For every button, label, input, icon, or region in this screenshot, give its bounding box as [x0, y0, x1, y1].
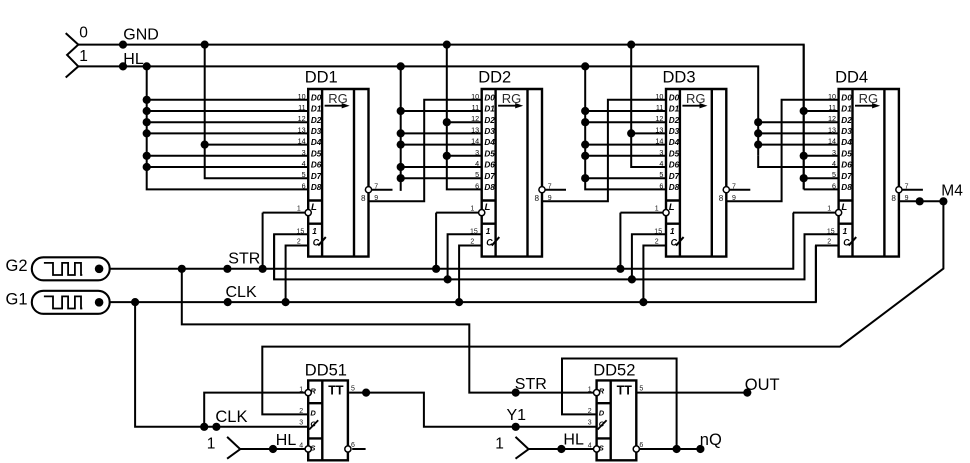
svg-text:3: 3	[832, 148, 836, 157]
svg-text:5: 5	[351, 386, 355, 393]
svg-text:1: 1	[588, 386, 592, 393]
svg-text:C: C	[310, 419, 316, 428]
svg-text:HL: HL	[276, 432, 297, 449]
svg-text:D3: D3	[841, 127, 852, 136]
svg-text:STR: STR	[228, 251, 260, 268]
svg-text:D4: D4	[484, 138, 495, 147]
svg-text:CLK: CLK	[215, 408, 247, 426]
svg-text:D5: D5	[669, 149, 680, 158]
svg-text:D1: D1	[484, 105, 495, 114]
svg-text:D7: D7	[484, 172, 495, 181]
svg-text:D8: D8	[311, 183, 322, 192]
svg-text:D4: D4	[841, 138, 852, 147]
svg-text:4: 4	[659, 159, 663, 168]
svg-text:4: 4	[475, 159, 479, 168]
svg-text:L: L	[669, 202, 675, 213]
svg-text:Y1: Y1	[507, 407, 527, 424]
svg-text:D4: D4	[311, 138, 322, 147]
svg-text:2: 2	[470, 239, 474, 246]
svg-text:1: 1	[495, 435, 504, 452]
svg-text:9: 9	[548, 195, 552, 202]
svg-text:D2: D2	[669, 116, 680, 125]
svg-text:D: D	[599, 409, 605, 418]
svg-text:8: 8	[361, 194, 366, 203]
svg-text:9: 9	[732, 195, 736, 202]
svg-text:2: 2	[588, 408, 592, 415]
svg-text:RG: RG	[686, 91, 706, 106]
svg-text:D5: D5	[841, 149, 852, 158]
svg-text:5: 5	[639, 386, 643, 393]
svg-text:13: 13	[828, 125, 836, 134]
svg-text:5: 5	[659, 170, 663, 179]
svg-text:4: 4	[832, 159, 836, 168]
svg-text:DD3: DD3	[663, 69, 696, 87]
svg-text:1: 1	[207, 435, 216, 452]
svg-text:3: 3	[302, 148, 306, 157]
svg-text:DD2: DD2	[478, 69, 511, 87]
svg-text:D3: D3	[484, 127, 495, 136]
svg-text:4: 4	[302, 159, 306, 168]
svg-text:1: 1	[843, 227, 848, 236]
svg-text:2: 2	[297, 239, 301, 246]
svg-text:7: 7	[732, 183, 736, 190]
svg-text:10: 10	[298, 92, 306, 101]
svg-text:C: C	[486, 237, 493, 247]
svg-text:2: 2	[299, 408, 303, 415]
svg-text:3: 3	[475, 148, 479, 157]
svg-text:C: C	[671, 237, 678, 247]
svg-text:G2: G2	[6, 257, 28, 275]
svg-text:3: 3	[659, 148, 663, 157]
svg-text:5: 5	[302, 170, 306, 179]
svg-text:D6: D6	[841, 161, 852, 170]
svg-text:3: 3	[299, 419, 303, 426]
svg-text:10: 10	[655, 92, 663, 101]
svg-text:OUT: OUT	[745, 376, 780, 394]
svg-text:13: 13	[655, 125, 663, 134]
svg-text:S: S	[310, 444, 315, 453]
svg-text:R: R	[310, 387, 316, 396]
svg-text:6: 6	[302, 181, 306, 190]
svg-text:S: S	[599, 444, 604, 453]
svg-text:6: 6	[351, 442, 355, 449]
svg-text:4: 4	[299, 442, 303, 449]
svg-text:13: 13	[298, 125, 306, 134]
svg-text:DD52: DD52	[593, 362, 635, 380]
svg-text:7: 7	[548, 183, 552, 190]
svg-text:TT: TT	[617, 384, 633, 398]
svg-text:15: 15	[827, 228, 835, 235]
svg-text:12: 12	[298, 114, 306, 123]
svg-text:D0: D0	[311, 93, 322, 102]
svg-text:D1: D1	[669, 105, 680, 114]
svg-text:L: L	[311, 202, 317, 213]
svg-text:8: 8	[534, 194, 539, 203]
svg-text:14: 14	[298, 137, 306, 146]
svg-text:6: 6	[832, 181, 836, 190]
svg-text:D6: D6	[311, 161, 322, 170]
svg-text:13: 13	[471, 125, 479, 134]
svg-text:15: 15	[654, 228, 662, 235]
svg-text:D2: D2	[841, 116, 852, 125]
svg-text:DD1: DD1	[305, 69, 338, 87]
svg-text:2: 2	[655, 239, 659, 246]
svg-text:10: 10	[471, 92, 479, 101]
svg-text:D7: D7	[311, 172, 322, 181]
svg-text:D5: D5	[484, 149, 495, 158]
svg-text:D: D	[310, 409, 316, 418]
svg-text:14: 14	[828, 137, 836, 146]
svg-text:11: 11	[829, 103, 836, 112]
svg-text:L: L	[841, 202, 847, 213]
svg-text:D2: D2	[484, 116, 495, 125]
svg-text:9: 9	[905, 195, 909, 202]
svg-text:1: 1	[79, 48, 88, 65]
svg-text:1: 1	[470, 206, 474, 213]
svg-text:D1: D1	[311, 105, 322, 114]
svg-text:D1: D1	[841, 105, 852, 114]
svg-text:8: 8	[719, 194, 724, 203]
svg-text:STR: STR	[515, 376, 547, 393]
svg-text:D3: D3	[669, 127, 680, 136]
svg-text:1: 1	[670, 227, 675, 236]
svg-text:15: 15	[470, 228, 478, 235]
svg-text:DD51: DD51	[305, 362, 347, 380]
svg-text:8: 8	[891, 194, 896, 203]
svg-text:1: 1	[486, 227, 491, 236]
svg-text:12: 12	[471, 114, 479, 123]
svg-text:CLK: CLK	[226, 284, 257, 301]
svg-text:C: C	[313, 237, 320, 247]
svg-text:2: 2	[827, 239, 831, 246]
svg-text:3: 3	[588, 419, 592, 426]
svg-text:RG: RG	[328, 91, 348, 106]
svg-text:7: 7	[905, 183, 909, 190]
svg-text:D8: D8	[841, 183, 852, 192]
svg-text:5: 5	[475, 170, 479, 179]
svg-text:D3: D3	[311, 127, 322, 136]
svg-text:HL: HL	[123, 51, 144, 68]
svg-text:1: 1	[655, 206, 659, 213]
svg-text:G1: G1	[6, 291, 28, 309]
svg-text:12: 12	[828, 114, 836, 123]
svg-text:4: 4	[588, 442, 592, 449]
svg-text:14: 14	[471, 137, 479, 146]
svg-text:D2: D2	[311, 116, 322, 125]
svg-text:D7: D7	[669, 172, 680, 181]
svg-text:L: L	[485, 202, 491, 213]
svg-text:GND: GND	[123, 27, 159, 44]
svg-text:6: 6	[639, 442, 643, 449]
svg-text:DD4: DD4	[835, 69, 868, 87]
svg-text:D8: D8	[484, 183, 495, 192]
svg-text:6: 6	[475, 181, 479, 190]
svg-text:D0: D0	[669, 93, 680, 102]
svg-text:TT: TT	[328, 384, 344, 398]
svg-text:HL: HL	[563, 432, 584, 449]
svg-text:nQ: nQ	[700, 431, 722, 449]
svg-text:1: 1	[297, 206, 301, 213]
svg-text:D6: D6	[669, 161, 680, 170]
svg-text:D4: D4	[669, 138, 680, 147]
svg-text:RG: RG	[502, 91, 522, 106]
svg-text:11: 11	[656, 103, 663, 112]
svg-text:D5: D5	[311, 149, 322, 158]
svg-text:0: 0	[79, 25, 88, 42]
svg-text:C: C	[843, 237, 850, 247]
svg-text:1: 1	[299, 386, 303, 393]
svg-text:D7: D7	[841, 172, 852, 181]
svg-text:M4: M4	[941, 182, 963, 199]
svg-text:10: 10	[828, 92, 836, 101]
svg-text:RG: RG	[859, 91, 879, 106]
svg-text:11: 11	[472, 103, 479, 112]
svg-text:5: 5	[832, 170, 836, 179]
svg-text:D6: D6	[484, 161, 495, 170]
svg-text:14: 14	[655, 137, 663, 146]
svg-text:R: R	[599, 387, 605, 396]
svg-text:D0: D0	[841, 93, 852, 102]
svg-text:9: 9	[374, 195, 378, 202]
svg-text:1: 1	[827, 206, 831, 213]
svg-text:15: 15	[297, 228, 305, 235]
svg-text:1: 1	[312, 227, 317, 236]
svg-text:C: C	[599, 419, 605, 428]
svg-text:7: 7	[374, 183, 378, 190]
svg-text:6: 6	[659, 181, 663, 190]
svg-text:D8: D8	[669, 183, 680, 192]
svg-text:11: 11	[298, 103, 305, 112]
svg-text:D0: D0	[484, 93, 495, 102]
svg-text:12: 12	[655, 114, 663, 123]
